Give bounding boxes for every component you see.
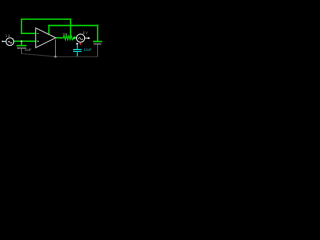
svg-text:1 V: 1 V: [5, 34, 11, 38]
svg-text:10uF: 10uF: [84, 48, 92, 52]
svg-text:10uF: 10uF: [24, 48, 31, 52]
svg-text:10k: 10k: [62, 33, 68, 37]
